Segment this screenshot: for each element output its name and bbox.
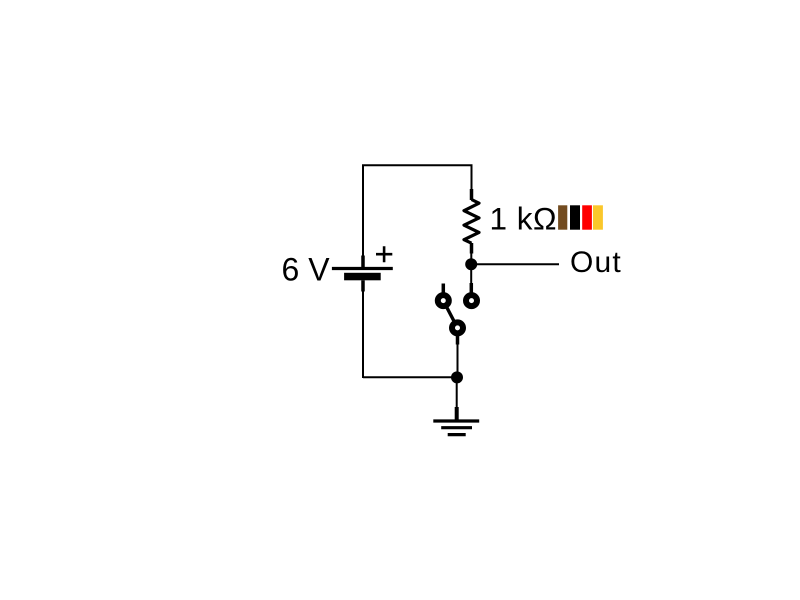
svg-text:1 kΩ: 1 kΩ	[490, 201, 558, 237]
svg-text:Out: Out	[570, 246, 622, 279]
svg-text:6 V: 6 V	[282, 252, 331, 288]
